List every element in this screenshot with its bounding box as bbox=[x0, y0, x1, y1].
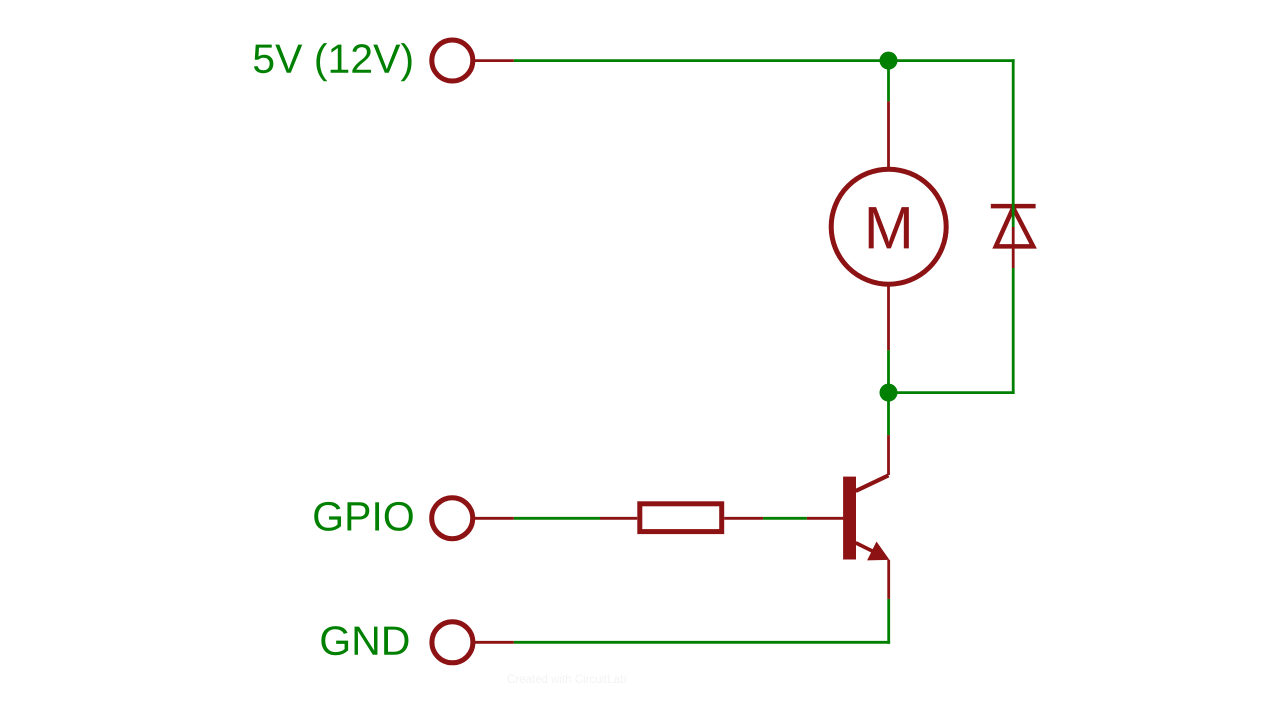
svg-text:Created with CircuitLab: Created with CircuitLab bbox=[507, 674, 627, 686]
